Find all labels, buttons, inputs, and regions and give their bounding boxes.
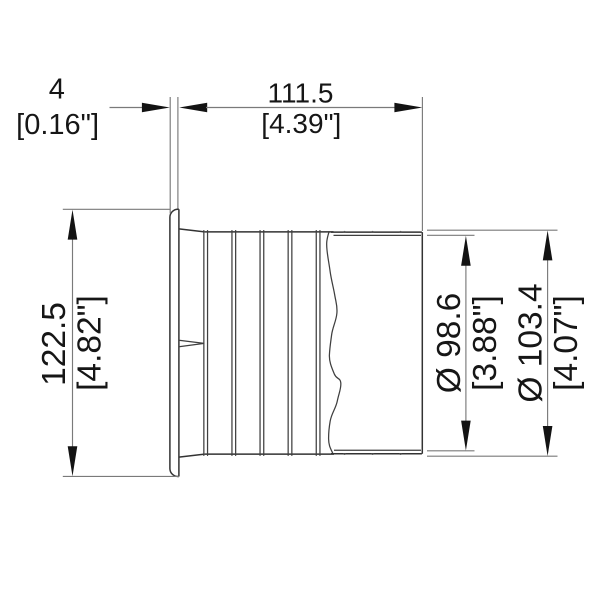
dim 111.5 arrow left xyxy=(179,103,207,113)
dim 103.4 arrow bottom xyxy=(543,426,553,456)
break wave line xyxy=(327,231,341,453)
crest nub top 2 xyxy=(371,231,374,232)
dim 103.4 arrow top xyxy=(543,230,553,260)
svg-text:[4.07"]: [4.07"] xyxy=(548,295,585,391)
body top wall line xyxy=(205,231,334,233)
svg-text:122.5: 122.5 xyxy=(36,302,73,386)
svg-text:4: 4 xyxy=(49,73,65,105)
svg-text:[0.16"]: [0.16"] xyxy=(16,109,99,141)
dim 122.5 extension bottom xyxy=(63,475,179,477)
dim 98.6 line xyxy=(465,264,467,422)
dim 98.6 arrow bottom xyxy=(461,421,471,451)
svg-text:[4.39"]: [4.39"] xyxy=(261,108,341,139)
spigot bottom inner line xyxy=(334,449,421,451)
rib 3 xyxy=(260,231,264,456)
body bottom wall line xyxy=(205,453,334,455)
rib 1 xyxy=(204,231,208,456)
rib 4 xyxy=(288,231,292,456)
rib 5 xyxy=(316,231,320,456)
dim 103.4 extension bottom xyxy=(427,455,558,457)
dim 122.5 arrow bottom xyxy=(68,446,78,476)
svg-text:[3.88"]: [3.88"] xyxy=(467,295,504,391)
svg-text:[4.82"]: [4.82"] xyxy=(71,295,108,391)
spigot top outer line xyxy=(331,231,422,233)
crest nub top 3 xyxy=(399,231,402,232)
dim 111.5 arrow right xyxy=(394,103,422,113)
dim 111.5 line xyxy=(206,107,395,109)
dim 122.5 extension top xyxy=(63,208,171,210)
dim 98.6 arrow top xyxy=(461,236,471,266)
spigot top inner line xyxy=(334,234,422,236)
dim 4 arrow left xyxy=(142,103,170,113)
dim 4 extension line right xyxy=(177,97,179,209)
crest nub bottom 2 xyxy=(371,454,374,455)
flange right face xyxy=(178,209,180,476)
crest nub bottom 1 xyxy=(343,454,346,455)
dim 98.6 extension top xyxy=(427,234,475,236)
flange xyxy=(170,209,179,476)
body bottom slope xyxy=(179,454,205,457)
spigot bottom outer line xyxy=(331,453,422,455)
crest nub bottom 3 xyxy=(399,454,402,455)
body right end xyxy=(421,232,423,454)
svg-text:111.5: 111.5 xyxy=(268,77,334,108)
cone marker xyxy=(179,340,204,347)
dim 4 line left xyxy=(110,107,143,109)
dim 122.5 arrow top xyxy=(68,210,78,240)
dim 122.5 line xyxy=(72,236,74,449)
dim 103.4 extension top xyxy=(427,229,558,231)
svg-text:Ø 103.4: Ø 103.4 xyxy=(513,283,550,402)
svg-text:Ø 98.6: Ø 98.6 xyxy=(431,293,468,394)
crest nub top 1 xyxy=(343,231,346,232)
dim 103.4 line xyxy=(547,259,549,427)
dim 4 extension line left xyxy=(169,97,171,214)
dim 111.5 extension right xyxy=(421,97,423,231)
body top slope xyxy=(179,229,205,232)
rib 2 xyxy=(232,231,236,456)
dim 98.6 extension bottom xyxy=(427,450,475,452)
